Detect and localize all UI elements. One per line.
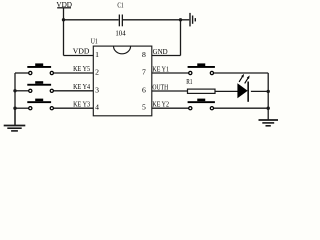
svg-text:KE Y1: KE Y1 — [152, 66, 169, 74]
svg-text:GND: GND — [153, 48, 168, 56]
svg-text:7: 7 — [142, 68, 146, 77]
svg-text:KE Y4: KE Y4 — [73, 83, 90, 91]
svg-text:KE Y3: KE Y3 — [73, 100, 90, 108]
svg-text:KE Y2: KE Y2 — [152, 101, 169, 109]
svg-text:R1: R1 — [186, 78, 193, 86]
svg-text:OUTH: OUTH — [152, 84, 168, 92]
svg-text:3: 3 — [95, 85, 99, 94]
svg-text:6: 6 — [142, 85, 146, 94]
svg-text:1: 1 — [95, 50, 99, 59]
svg-text:104: 104 — [115, 30, 126, 38]
svg-text:8: 8 — [142, 50, 146, 59]
svg-text:C1: C1 — [117, 2, 124, 10]
svg-text:2: 2 — [95, 68, 99, 77]
svg-text:U1: U1 — [91, 38, 98, 46]
svg-text:VDD: VDD — [73, 48, 90, 56]
svg-text:5: 5 — [142, 103, 146, 112]
svg-text:KE Y5: KE Y5 — [73, 65, 90, 73]
svg-text:4: 4 — [95, 103, 99, 112]
svg-text:VDD: VDD — [56, 1, 72, 9]
